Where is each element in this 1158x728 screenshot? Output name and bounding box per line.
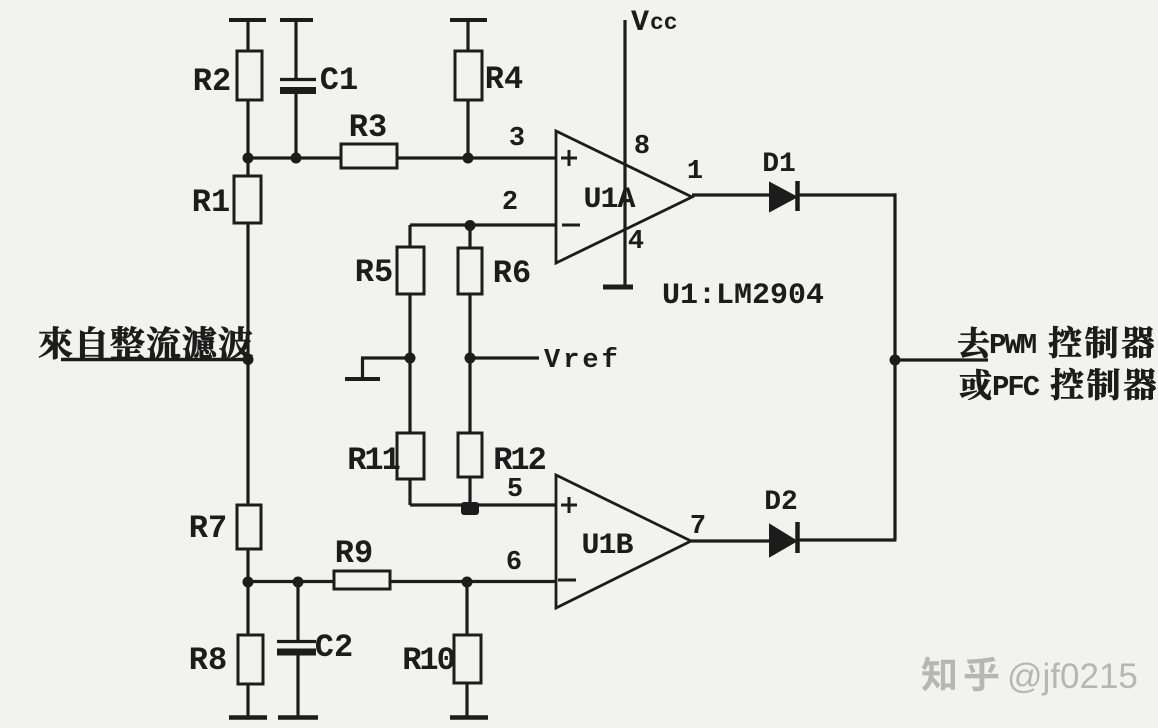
svg-text:R11: R11 <box>347 442 399 479</box>
svg-text:5: 5 <box>507 475 523 505</box>
svg-text:R10: R10 <box>402 642 454 679</box>
svg-text:R9: R9 <box>335 535 373 572</box>
svg-text:R6: R6 <box>493 255 531 292</box>
svg-text:R2: R2 <box>193 63 231 100</box>
svg-text:R5: R5 <box>355 254 393 291</box>
svg-text:PWM: PWM <box>989 329 1036 362</box>
svg-text:1: 1 <box>687 157 703 187</box>
svg-text:R12: R12 <box>493 442 545 479</box>
svg-text:V: V <box>631 6 649 40</box>
svg-text:cc: cc <box>650 10 678 36</box>
svg-text:6: 6 <box>506 548 522 578</box>
svg-text:U1A: U1A <box>583 183 635 217</box>
svg-text:4: 4 <box>628 227 644 257</box>
svg-text:C2: C2 <box>315 629 353 666</box>
svg-text:R7: R7 <box>189 510 227 547</box>
svg-text:U1:LM2904: U1:LM2904 <box>662 279 824 313</box>
svg-text:C1: C1 <box>320 62 358 99</box>
svg-text:R3: R3 <box>349 109 387 146</box>
svg-text:3: 3 <box>509 124 525 154</box>
svg-text:R1: R1 <box>192 184 230 221</box>
svg-text:@jf0215: @jf0215 <box>1007 657 1138 696</box>
svg-text:R4: R4 <box>485 61 523 98</box>
svg-text:PFC: PFC <box>992 371 1040 404</box>
svg-text:8: 8 <box>634 132 650 162</box>
svg-text:Vref: Vref <box>544 346 621 376</box>
svg-text:2: 2 <box>502 188 518 218</box>
svg-text:D1: D1 <box>762 149 796 180</box>
svg-text:U1B: U1B <box>581 529 633 563</box>
svg-text:D2: D2 <box>764 487 798 518</box>
svg-text:7: 7 <box>690 512 706 542</box>
svg-text:R8: R8 <box>189 642 227 679</box>
